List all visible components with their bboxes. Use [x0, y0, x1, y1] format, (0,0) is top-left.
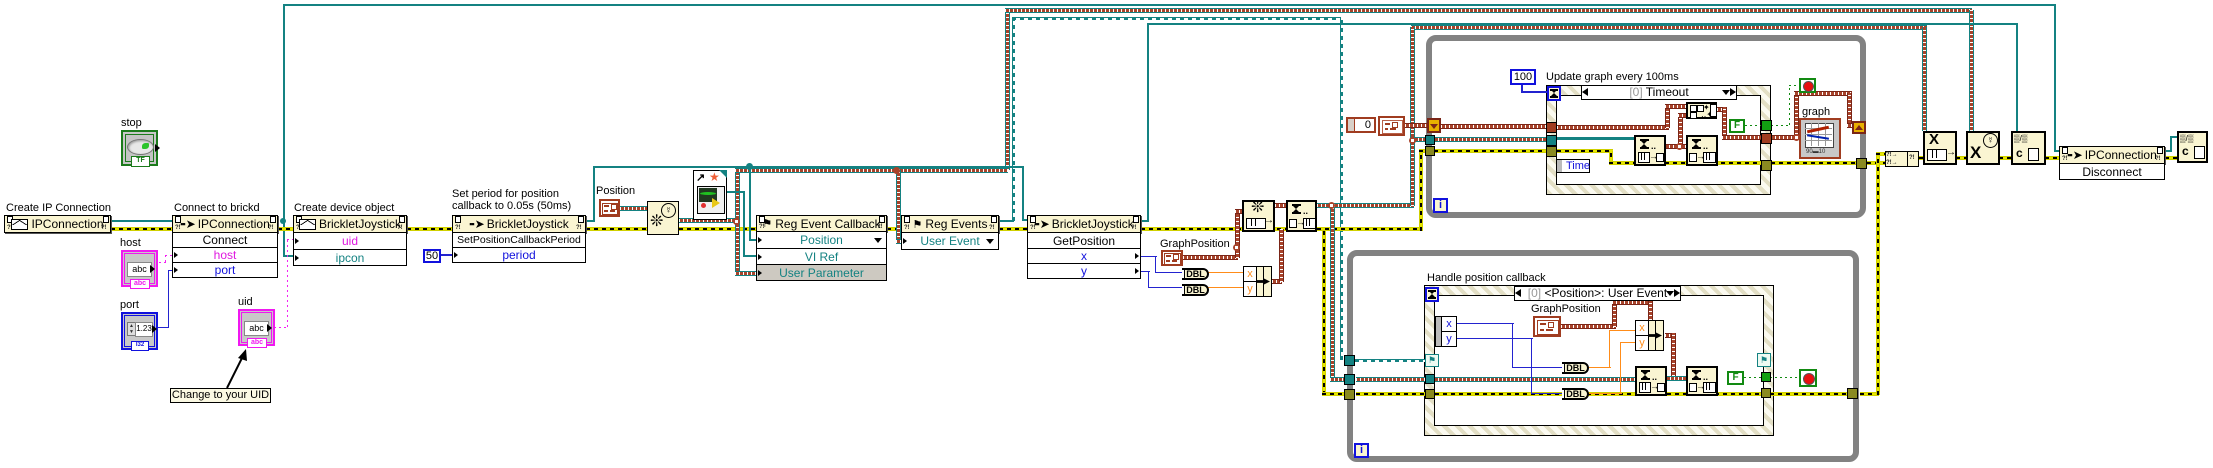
constant 100	[1510, 69, 1536, 85]
DBL conversion 4	[1562, 388, 1589, 400]
obtain notifier icon	[1242, 200, 1275, 232]
tunnel cluster top structure left	[1546, 122, 1557, 133]
wire device-ref to cleanup top run	[1141, 220, 1149, 222]
wire bundle out up to notifier-send	[1272, 279, 1282, 284]
GraphPosition global bottom	[1533, 316, 1561, 337]
iteration terminal bottom loop	[1354, 443, 1369, 458]
label create device object	[294, 202, 394, 214]
dynamic event terminal right	[1757, 353, 1771, 367]
tunnel error bottom loop left	[1344, 389, 1355, 400]
label GraphPosition bottom	[1531, 303, 1601, 315]
loop condition stop terminal top	[1799, 78, 1816, 93]
tunnel notifier bottom structure left	[1425, 374, 1435, 384]
wire disconnect to destroy-ipcon	[2165, 150, 2172, 152]
while loop bottom	[1347, 250, 1859, 462]
wire history array into bundler	[1557, 125, 1669, 130]
vi reference icon	[693, 170, 727, 220]
reg events node	[901, 215, 999, 233]
wire wait-node data to bundler and status	[1665, 144, 1686, 149]
DBL conversion 1	[1182, 268, 1209, 280]
graph xy indicator	[1799, 118, 1841, 159]
notifier-status icon bottom	[1686, 366, 1718, 396]
wire DBL outputs to bundle	[1208, 272, 1243, 273]
wire y to DBL2	[1141, 271, 1150, 272]
wire user-event net	[679, 218, 739, 223]
tunnel notifier top loop left	[1425, 135, 1435, 145]
event data node x y	[1435, 316, 1457, 347]
get position node	[1027, 215, 1141, 233]
annotation change to your uid	[170, 388, 271, 403]
create user event node	[647, 201, 679, 235]
reg event callback node	[756, 215, 887, 232]
host control	[121, 250, 158, 287]
wire notifier inside top loop	[1434, 137, 1548, 142]
timeout terminal bottom structure	[1425, 287, 1439, 302]
wire device-ref mid run	[586, 220, 595, 222]
wire port to connect node	[158, 327, 169, 328]
constant 50	[423, 249, 441, 263]
wire notifier-send to status bottom	[1666, 376, 1686, 381]
connect to brickd node	[172, 215, 278, 233]
iteration terminal top loop	[1433, 198, 1448, 213]
wire bundler out to right tunnel	[1717, 107, 1727, 112]
wire user-event top run	[1005, 8, 1010, 170]
wire event y to DBL4	[1457, 338, 1533, 339]
destroy user event icon	[1966, 131, 2000, 165]
send-notification icon bottom	[1635, 366, 1667, 396]
wire notifier-ref vertical to release	[1922, 27, 1927, 131]
wire obtain-notifier to wait-notifier	[1275, 203, 1286, 208]
create device object node	[293, 215, 407, 233]
tunnel error top structure right	[1761, 160, 1772, 171]
F constant top	[1729, 119, 1745, 133]
wire uid to device node	[274, 327, 289, 328]
history cluster constant 0	[1346, 117, 1376, 133]
wire error main chain	[111, 227, 172, 231]
notifier-status icon top	[1686, 135, 1718, 166]
wire DBL4 to bundle2 y	[1589, 393, 1622, 394]
wire error inside bottom loop and structure	[1356, 392, 1426, 396]
wire shift register to structure cluster tunnel	[1441, 124, 1546, 129]
tunnel error top structure left	[1546, 146, 1557, 157]
wire notifier-ref top run	[1411, 25, 1927, 30]
wire history cluster const to shift register	[1405, 123, 1427, 128]
wire error bottom loop up to merge-errors	[1860, 392, 1879, 396]
GraphPosition global top chain	[1161, 250, 1183, 266]
bundle node bottom structure	[1635, 320, 1664, 351]
shift register right up-arrow	[1852, 121, 1866, 134]
wire graphposition-const to obtain-notifier	[1183, 255, 1238, 260]
label graph	[1802, 106, 1830, 118]
loop condition stop terminal bottom	[1799, 369, 1817, 387]
label stop	[121, 117, 142, 129]
label port	[120, 299, 139, 311]
wire event x to DBL3	[1457, 323, 1514, 324]
wire host to connect node	[159, 262, 167, 263]
create ip connection node	[4, 215, 111, 233]
wire DBL3 to bundle2 x	[1589, 367, 1611, 368]
shift register left down-arrow	[1427, 118, 1441, 133]
wire cluster to graph and shift register	[1771, 135, 1800, 140]
wire graphposition2 to bundle2 type	[1561, 324, 1616, 329]
wire x to DBL1	[1141, 256, 1157, 257]
label connect to brickd	[174, 202, 260, 214]
event structure top frame	[1546, 85, 1771, 195]
wire vi-ref to callback node	[727, 191, 745, 193]
wire registration refnum inside bottom loop	[1355, 359, 1426, 360]
tunnel error top loop right	[1856, 158, 1867, 169]
dynamic event terminal left	[1425, 354, 1439, 367]
wire ipconnection branch to ipcon row	[283, 221, 285, 257]
wire registration-refnum top run dashed	[999, 220, 1014, 222]
wire error branch down to bottom loop	[1322, 231, 1326, 395]
wire position-const to create-user-event	[620, 206, 648, 211]
event structure bottom header	[1514, 286, 1681, 301]
wire error inside top loop	[1434, 149, 1548, 153]
merge errors node	[1885, 151, 1919, 167]
wire notifier into wait-node	[1557, 137, 1634, 140]
tunnel error bottom loop right	[1847, 388, 1858, 399]
uid control	[238, 309, 275, 346]
annotation arrow	[0, 0, 300, 420]
tunnel error top loop left	[1425, 146, 1435, 156]
ipconnection disconnect node	[2059, 146, 2165, 164]
port control	[121, 312, 158, 350]
while loop top	[1426, 35, 1866, 218]
wait-notification icon top	[1634, 135, 1666, 166]
wire error branch up to top loop	[1419, 151, 1423, 231]
label set period	[452, 188, 571, 213]
event structure top header	[1581, 85, 1737, 100]
wire error inside top event structure	[1557, 149, 1613, 153]
tunnel error bottom structure left	[1425, 389, 1435, 399]
wire F to boolean tunnel top	[1745, 125, 1761, 126]
label update graph every 100ms	[1546, 71, 1679, 83]
event structure bottom frame	[1424, 285, 1774, 436]
destroy ipconnection icon	[2177, 131, 2208, 163]
position callback constant	[599, 199, 620, 217]
close device icon	[2011, 131, 2046, 165]
tunnel boolean top structure right	[1761, 120, 1772, 131]
label position	[596, 185, 635, 197]
tunnel registration bottom loop left	[1344, 355, 1355, 366]
tunnel error bottom structure right	[1761, 388, 1771, 398]
wire 100 to timeout terminal	[1521, 85, 1523, 93]
DBL conversion 2	[1182, 284, 1209, 296]
bundler icon build-cluster-array	[1686, 102, 1717, 119]
release notifier icon	[1923, 131, 1957, 165]
set period node	[452, 215, 586, 233]
stop control	[121, 130, 158, 166]
label GraphPosition top chain	[1160, 238, 1230, 250]
tunnel cluster top structure right	[1761, 133, 1772, 144]
tunnel notifier top structure left	[1546, 135, 1557, 146]
wire 50 to period	[441, 254, 452, 256]
wire notifier inside bottom loop	[1356, 377, 1426, 382]
wire bundle2 out to notifier-send	[1665, 333, 1676, 338]
wire error top structure to loop edge	[1771, 161, 1858, 165]
timeout terminal top structure	[1547, 86, 1561, 101]
wire boolean to stop terminal top	[1771, 125, 1791, 126]
label handle position callback	[1427, 272, 1546, 284]
F constant bottom	[1727, 371, 1744, 385]
wire error top loop to merge-errors	[1867, 161, 1886, 165]
wire error cleanup chain	[1919, 156, 1924, 160]
wire create-ip to connect teal	[111, 220, 172, 222]
wire F bottom to tunnel and stop terminal	[1744, 377, 1761, 378]
Time indicator	[1556, 159, 1590, 173]
history cluster constant icon	[1378, 116, 1405, 136]
tunnel boolean bottom structure right	[1761, 372, 1771, 382]
DBL conversion 3	[1562, 362, 1589, 374]
label create ip connection	[6, 202, 111, 214]
notifier-status icon chain	[1286, 200, 1317, 232]
wire ipconnection-ref top run	[283, 4, 285, 221]
wire notifier-ref net	[1317, 203, 1334, 208]
junction dots and diamonds	[746, 163, 753, 170]
tunnel notifier bottom loop left	[1344, 374, 1355, 385]
bundle node top chain	[1243, 266, 1272, 297]
